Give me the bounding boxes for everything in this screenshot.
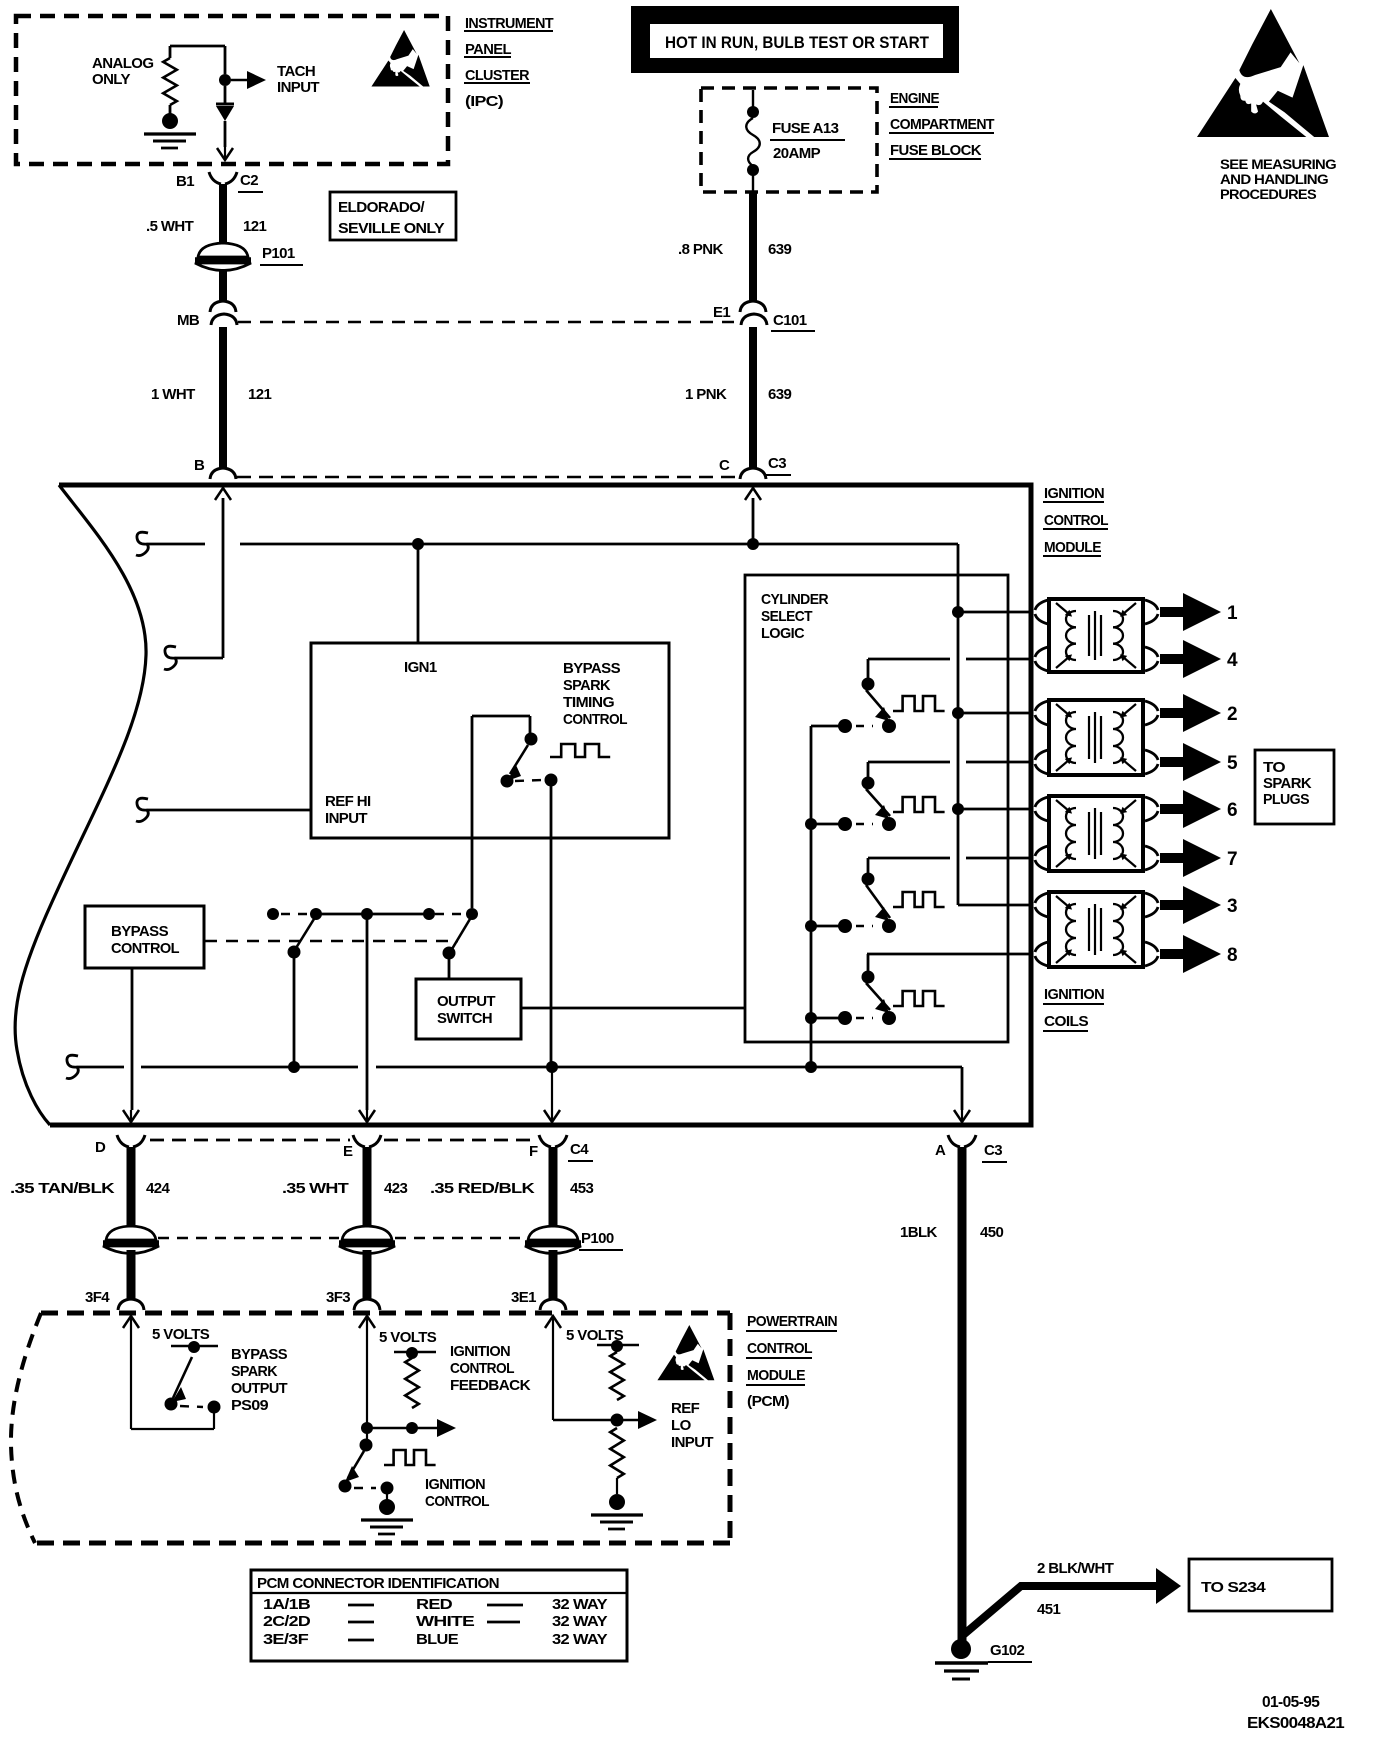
label BYPASS SPARK OUTPUT PS09 — [231, 1346, 288, 1414]
node bus coil1 — [952, 606, 964, 618]
svg-text:POWERTRAIN: POWERTRAIN — [747, 1313, 837, 1330]
ground (ref lo) — [591, 1494, 643, 1529]
switch row (bypass relay) — [267, 908, 478, 920]
svg-text:HOT IN RUN, BULB TEST OR START: HOT IN RUN, BULB TEST OR START — [665, 33, 930, 52]
svg-text:32 WAY: 32 WAY — [552, 1631, 608, 1648]
label REF HI INPUT — [325, 793, 371, 827]
label TACH INPUT — [277, 63, 319, 96]
engine compartment fuse block box — [701, 88, 877, 192]
svg-text:COILS: COILS — [1044, 1013, 1089, 1030]
svg-text:CONTROL: CONTROL — [563, 711, 627, 728]
svg-text:CONTROL: CONTROL — [425, 1493, 489, 1510]
node bus coil3 — [952, 803, 964, 815]
svg-text:3F3: 3F3 — [326, 1289, 350, 1306]
svg-text:REF: REF — [671, 1400, 700, 1417]
node terminal C feed — [747, 498, 759, 550]
label REF LO INPUT — [671, 1400, 713, 1451]
svg-text:SWITCH: SWITCH — [437, 1010, 492, 1027]
switch cylinder select 4 — [838, 954, 896, 1025]
svg-text:C101: C101 — [773, 312, 807, 329]
spark plug arrow 1 — [1145, 593, 1238, 631]
svg-text:B1: B1 — [176, 173, 194, 190]
arrow into connector C2 — [217, 147, 233, 160]
svg-text:639: 639 — [768, 241, 791, 258]
wire coil1 switch output — [868, 658, 1031, 661]
PCM connector identification table — [251, 1570, 627, 1661]
ignition coil 2 — [1049, 700, 1143, 775]
node ref lo — [611, 1414, 624, 1427]
ESD warning symbol (large) — [1197, 9, 1329, 137]
svg-text:.35 TAN/BLK: .35 TAN/BLK — [10, 1180, 115, 1197]
svg-text:(PCM): (PCM) — [747, 1393, 790, 1410]
connector arcs coil 4 left — [1035, 893, 1048, 966]
connector arcs coil 1 left — [1035, 600, 1048, 671]
wire bus to coils — [957, 544, 960, 905]
svg-text:5 VOLTS: 5 VOLTS — [379, 1329, 437, 1346]
spark plug arrow 8 — [1145, 935, 1237, 973]
dashed connector line C101 — [238, 321, 734, 324]
svg-text:CONTROL: CONTROL — [747, 1340, 812, 1357]
continuation squiggle S3 — [136, 798, 148, 821]
node S4 junctions — [288, 1061, 817, 1073]
label 5 VOLTS (D) — [152, 1326, 210, 1343]
waveform (IGN1) — [550, 744, 610, 757]
svg-text:.35 WHT: .35 WHT — [282, 1180, 349, 1197]
dashed connector line C3 (top) — [237, 476, 740, 479]
svg-text:P100: P100 — [581, 1230, 614, 1247]
svg-text:BYPASS: BYPASS — [231, 1346, 288, 1363]
to spark plugs box — [1255, 750, 1334, 824]
label SEE MEASURING AND HANDLING PROCEDURES — [1220, 157, 1336, 202]
svg-text:423: 423 — [384, 1180, 407, 1197]
svg-text:C: C — [719, 457, 730, 474]
svg-text:3E1: 3E1 — [511, 1289, 536, 1306]
svg-text:CYLINDER: CYLINDER — [761, 591, 829, 608]
label IGNITION CONTROL — [425, 1476, 489, 1510]
svg-text:SELECT: SELECT — [761, 608, 812, 625]
svg-text:1BLK: 1BLK — [900, 1224, 938, 1241]
svg-text:TIMING: TIMING — [563, 694, 614, 711]
arrow terminal D out — [123, 1110, 139, 1122]
terminal B — [194, 457, 236, 479]
svg-text:2: 2 — [1227, 704, 1237, 725]
wire coil2 feed — [958, 712, 1031, 715]
wire 1 PNK 639 — [685, 327, 791, 468]
wire terminal A feed — [961, 1067, 964, 1110]
resistor (analog tach) — [163, 58, 177, 105]
svg-text:.5 WHT: .5 WHT — [146, 218, 194, 235]
arrow REF LO INPUT — [617, 1411, 657, 1429]
node select bus 4 — [805, 1012, 845, 1024]
svg-text:PROCEDURES: PROCEDURES — [1220, 187, 1317, 202]
svg-text:WHITE: WHITE — [416, 1613, 475, 1630]
wire coil3 feed — [958, 808, 1031, 811]
wire resistor top — [170, 46, 225, 74]
terminal F / connector C4 / wire 453 — [430, 1135, 593, 1227]
svg-text:EKS0048A21: EKS0048A21 — [1247, 1715, 1345, 1732]
resistor ref lo lower — [610, 1428, 624, 1494]
wire terminal E feed — [366, 914, 369, 1110]
svg-text:LO: LO — [671, 1417, 692, 1434]
wire coil3 switch output — [868, 857, 1031, 860]
svg-text:INPUT: INPUT — [325, 810, 367, 827]
arrow terminal A out — [954, 1110, 970, 1122]
svg-text:SEVILLE ONLY: SEVILLE ONLY — [338, 220, 445, 237]
svg-text:6: 6 — [1227, 800, 1237, 821]
terminals 3F4 3F3 3E1 — [85, 1289, 566, 1310]
eldorado seville only note box — [330, 192, 456, 240]
svg-text:PS09: PS09 — [231, 1397, 268, 1414]
svg-text:OUTPUT: OUTPUT — [231, 1380, 287, 1397]
svg-text:F: F — [529, 1143, 538, 1160]
svg-text:32 WAY: 32 WAY — [552, 1613, 608, 1630]
wire below P101 — [219, 269, 227, 301]
wire S1 ignition feed — [148, 543, 958, 546]
spark plug arrow 3 — [1145, 886, 1237, 924]
svg-text:1A/1B: 1A/1B — [263, 1596, 311, 1613]
ignition control module outline — [15, 485, 1031, 1125]
continuation squiggle S2 — [164, 646, 176, 669]
svg-text:20AMP: 20AMP — [773, 145, 821, 162]
svg-text:FUSE A13: FUSE A13 — [772, 120, 839, 137]
svg-text:IGNITION: IGNITION — [450, 1343, 510, 1360]
svg-text:FEEDBACK: FEEDBACK — [450, 1377, 531, 1394]
svg-text:450: 450 — [980, 1224, 1003, 1241]
connector arcs coil 2 left — [1035, 701, 1048, 774]
wires into PCM — [131, 1250, 553, 1299]
switch (bypass timing) — [501, 733, 558, 788]
wire bypass control to D — [131, 968, 134, 1110]
svg-text:INPUT: INPUT — [671, 1434, 713, 1451]
wire IGN1 down legs — [472, 716, 551, 1067]
svg-text:7: 7 — [1227, 849, 1237, 870]
arrow terminal C into module — [745, 488, 761, 500]
IPC labels — [464, 15, 553, 110]
svg-text:BYPASS: BYPASS — [111, 923, 169, 940]
dashed connector line C4 — [150, 1139, 536, 1142]
switch bypass spark output — [131, 1341, 221, 1429]
svg-text:D: D — [95, 1139, 106, 1156]
switch ignition control — [339, 1439, 394, 1501]
svg-text:G102: G102 — [990, 1642, 1025, 1659]
svg-text:ENGINE: ENGINE — [890, 90, 940, 107]
svg-text:E: E — [343, 1143, 353, 1160]
svg-text:OUTPUT: OUTPUT — [437, 993, 495, 1010]
svg-text:TO: TO — [1263, 759, 1286, 776]
arrow terminal B into module — [215, 488, 231, 500]
instrument panel cluster box (IPC) — [16, 16, 448, 164]
PCM labels — [746, 1313, 837, 1410]
svg-text:CLUSTER: CLUSTER — [465, 67, 530, 84]
ignition coils label — [1043, 986, 1104, 1031]
spark plug arrow 2 — [1145, 694, 1237, 732]
svg-text:COMPARTMENT: COMPARTMENT — [890, 116, 994, 133]
HOT IN RUN bar — [631, 6, 959, 73]
spark plug arrow 7 — [1145, 839, 1237, 877]
wire terminal B to tach pickup — [176, 498, 223, 658]
svg-text:1 WHT: 1 WHT — [151, 386, 195, 403]
svg-text:3F4: 3F4 — [85, 1289, 110, 1306]
svg-text:E1: E1 — [713, 304, 730, 321]
svg-text:424: 424 — [146, 1180, 170, 1197]
svg-text:INPUT: INPUT — [277, 79, 319, 96]
arrow 3F4 into PCM — [123, 1316, 139, 1429]
label CYLINDER SELECT LOGIC — [761, 591, 829, 642]
resistor ref lo upper — [597, 1340, 639, 1400]
svg-text:SPARK: SPARK — [1263, 775, 1312, 792]
waveform cylinder select 3 — [893, 892, 945, 907]
arrow feedback — [361, 1419, 456, 1437]
wire coil2 switch output — [868, 761, 1031, 764]
wire ground reference S4 — [78, 1066, 962, 1069]
svg-text:121: 121 — [243, 218, 266, 235]
connector E1 / C101 — [713, 301, 815, 331]
node bus coil2 — [952, 707, 964, 719]
bypass control box — [85, 906, 204, 968]
wire select bus corner — [811, 726, 845, 1067]
svg-text:C4: C4 — [570, 1141, 589, 1158]
svg-text:IGNITION: IGNITION — [425, 1476, 485, 1493]
cylinder select logic box — [745, 575, 1008, 1042]
wire REF HI input — [148, 809, 311, 812]
arrow terminal E out — [359, 1110, 375, 1122]
svg-text:4: 4 — [1227, 650, 1238, 671]
label FUSE A13 / 20AMP — [770, 120, 845, 162]
wire inside IGN1 — [472, 716, 530, 734]
svg-text:LOGIC: LOGIC — [761, 625, 805, 642]
label BYPASS SPARK TIMING CONTROL — [563, 660, 627, 728]
svg-text:BLUE: BLUE — [416, 1631, 459, 1648]
waveform cylinder select 1 — [893, 696, 945, 711]
wire coil1 feed — [958, 611, 1031, 614]
arrow terminal F out — [544, 1067, 560, 1122]
svg-text:AND HANDLING: AND HANDLING — [1220, 172, 1328, 187]
svg-text:2C/2D: 2C/2D — [263, 1613, 311, 1630]
output switch box — [416, 979, 521, 1039]
arrow 3E1 into PCM — [545, 1316, 616, 1420]
continuation squiggle S4 — [66, 1055, 78, 1078]
svg-text:SEE MEASURING: SEE MEASURING — [1220, 157, 1336, 172]
svg-text:BYPASS: BYPASS — [563, 660, 621, 677]
svg-text:2 BLK/WHT: 2 BLK/WHT — [1037, 1560, 1114, 1577]
svg-text:1: 1 — [1227, 603, 1238, 624]
engine compartment fuse block labels — [889, 90, 994, 159]
IGN1 bypass spark timing control box — [311, 643, 669, 838]
ICM labels — [1043, 485, 1108, 556]
node junction tach — [219, 74, 231, 86]
svg-text:CONTROL: CONTROL — [450, 1360, 514, 1377]
svg-text:3: 3 — [1227, 896, 1237, 917]
svg-text:.8 PNK: .8 PNK — [678, 241, 724, 258]
svg-text:SPARK: SPARK — [563, 677, 611, 694]
ignition coil 1 — [1049, 599, 1143, 672]
svg-text:C3: C3 — [984, 1142, 1002, 1159]
fuse A13 20AMP — [746, 90, 760, 194]
wire .5 WHT 121 — [146, 184, 266, 243]
arrow TACH INPUT — [231, 71, 266, 89]
splice P100 row — [103, 1226, 623, 1254]
svg-text:MB: MB — [177, 312, 200, 329]
continuation squiggle S1 — [136, 532, 148, 555]
to S234 box — [1189, 1559, 1332, 1611]
switch arm left — [288, 919, 315, 1067]
switch arm right — [443, 919, 471, 979]
svg-text:C3: C3 — [768, 455, 786, 472]
wire coil4 feed — [958, 904, 1031, 907]
svg-text:ONLY: ONLY — [92, 71, 130, 88]
wire 1 WHT 121 — [151, 327, 271, 468]
svg-text:ELDORADO/: ELDORADO/ — [338, 199, 425, 216]
switch cylinder select 1 — [838, 659, 896, 733]
label 5 VOLTS (F) — [566, 1327, 624, 1344]
waveform ignition control — [384, 1450, 436, 1465]
ignition coil 4 — [1049, 892, 1143, 967]
resistor ignition control feedback — [394, 1347, 436, 1434]
date and document code — [1247, 1694, 1345, 1732]
arrow 3F3 into PCM — [359, 1316, 375, 1447]
svg-text:TACH: TACH — [277, 63, 315, 80]
svg-text:REF HI: REF HI — [325, 793, 371, 810]
svg-text:8: 8 — [1227, 945, 1237, 966]
label IGNITION CONTROL FEEDBACK — [450, 1343, 531, 1394]
svg-text:SPARK: SPARK — [231, 1363, 278, 1380]
ground (IPC) — [144, 105, 196, 148]
connector arcs coil 3 left — [1035, 797, 1048, 870]
terminal E / wire 423 — [282, 1135, 407, 1227]
diode CR1 — [216, 86, 234, 147]
svg-text:INSTRUMENT: INSTRUMENT — [465, 15, 553, 32]
svg-text:IGNITION: IGNITION — [1044, 986, 1104, 1003]
svg-text:IGNITION: IGNITION — [1044, 485, 1104, 502]
svg-text:MODULE: MODULE — [747, 1367, 806, 1384]
terminal D / wire 424 — [10, 1135, 170, 1227]
svg-text:5 VOLTS: 5 VOLTS — [152, 1326, 210, 1343]
svg-text:RED: RED — [416, 1596, 453, 1613]
wire 451 to S234 — [962, 1560, 1181, 1636]
svg-text:FUSE BLOCK: FUSE BLOCK — [890, 142, 982, 159]
svg-text:MODULE: MODULE — [1044, 539, 1102, 556]
svg-text:PCM CONNECTOR IDENTIFICATION: PCM CONNECTOR IDENTIFICATION — [257, 1575, 499, 1592]
spark plug arrow 4 — [1145, 640, 1238, 678]
label IGN1 — [404, 659, 437, 676]
svg-text:453: 453 — [570, 1180, 593, 1197]
wire coil4 switch output — [867, 953, 1031, 956]
svg-text:.35 RED/BLK: .35 RED/BLK — [430, 1180, 535, 1197]
connector MB (inline) — [177, 301, 237, 329]
dashed bypass control line — [205, 940, 458, 943]
switch cylinder select 3 — [838, 858, 896, 933]
label ANALOG ONLY — [92, 55, 153, 88]
svg-text:B: B — [194, 457, 205, 474]
ignition coil 3 — [1049, 796, 1143, 871]
powertrain control module box (PCM) — [11, 1313, 730, 1543]
svg-text:32 WAY: 32 WAY — [552, 1596, 608, 1613]
svg-text:PANEL: PANEL — [465, 41, 511, 58]
svg-text:A: A — [935, 1142, 946, 1159]
spark plug arrow 5 — [1145, 743, 1238, 781]
svg-text:01-05-95: 01-05-95 — [1262, 1694, 1320, 1711]
splice P101 — [195, 243, 303, 271]
svg-text:ANALOG: ANALOG — [92, 55, 153, 72]
node select bus 3 — [805, 920, 845, 932]
svg-text:P101: P101 — [262, 245, 295, 262]
svg-text:CONTROL: CONTROL — [111, 940, 179, 957]
svg-text:1 PNK: 1 PNK — [685, 386, 727, 403]
ESD warning symbol (PCM) — [657, 1325, 714, 1380]
waveform cylinder select 4 — [893, 991, 945, 1006]
label 5 VOLTS (E) — [379, 1329, 437, 1346]
ground G102 — [935, 1639, 1032, 1679]
svg-text:PLUGS: PLUGS — [1263, 791, 1310, 808]
node IGN1 feed — [412, 538, 424, 643]
waveform cylinder select 2 — [893, 797, 945, 812]
node select bus 2 — [805, 818, 845, 830]
terminal C / connector C3 — [719, 455, 791, 479]
svg-text:3E/3F: 3E/3F — [263, 1631, 309, 1648]
switch cylinder select 2 — [838, 762, 896, 831]
svg-text:TO S234: TO S234 — [1201, 1579, 1266, 1596]
svg-text:639: 639 — [768, 386, 791, 403]
ground (ignition control) — [361, 1499, 413, 1534]
svg-text:121: 121 — [248, 386, 271, 403]
svg-text:C2: C2 — [240, 172, 258, 189]
spark plug arrow 6 — [1145, 790, 1237, 828]
svg-text:451: 451 — [1037, 1601, 1060, 1618]
svg-text:IGN1: IGN1 — [404, 659, 437, 676]
svg-text:5: 5 — [1227, 753, 1238, 774]
ESD warning symbol (IPC) — [371, 30, 429, 87]
terminal A / connector C3 / wire 450 — [900, 1135, 1007, 1641]
wire .8 PNK 639 — [678, 192, 791, 301]
svg-text:(IPC): (IPC) — [465, 93, 504, 110]
wire output switch to cylinder select logic — [521, 1007, 744, 1010]
terminal B1 / connector C2 — [176, 172, 263, 192]
svg-text:CONTROL: CONTROL — [1044, 512, 1108, 529]
